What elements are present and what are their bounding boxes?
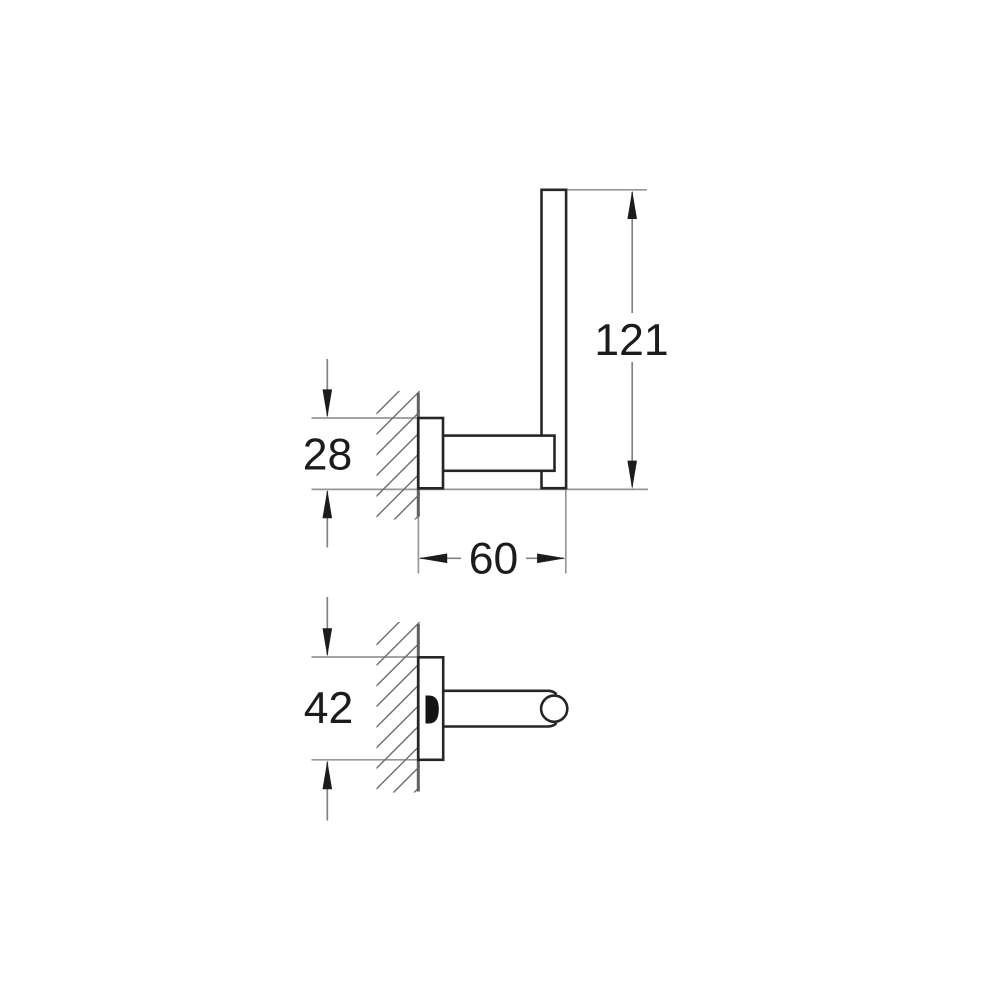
dimension 121: arrow up	[627, 191, 637, 219]
wall line (bottom figure)	[417, 624, 420, 792]
extension line top of plate (28)	[312, 417, 444, 419]
wall hatching (top view wall)	[355, 350, 440, 600]
vertical bar of holder (front view)	[542, 190, 567, 488]
rod (side view) bottom line	[443, 723, 556, 727]
extension line right (60)	[565, 490, 567, 574]
wall line (top figure)	[417, 393, 420, 517]
svg-text:60: 60	[469, 535, 519, 584]
rod end circle	[541, 696, 567, 722]
extension line top (for 121)	[566, 189, 647, 191]
extension line bottom shared (28 + 121)	[312, 488, 649, 490]
screw detail on plate	[426, 696, 439, 724]
dimension 28: bottom arrow line	[326, 491, 328, 548]
wall hatching (bottom view wall)	[355, 581, 440, 851]
horizontal arm (front view)	[443, 436, 555, 471]
dimension 42: bottom arrow line	[326, 762, 328, 821]
rod (side view) top line	[443, 691, 556, 695]
wall plate (side view)	[418, 657, 443, 760]
svg-text:42: 42	[304, 684, 354, 733]
dimension 60: line + arrows	[420, 557, 461, 559]
wall plate (front view)	[418, 418, 443, 488]
dimension 121: arrow down	[627, 461, 637, 489]
dimension 121: line	[631, 192, 633, 313]
extension line bottom of plate (42)	[312, 759, 444, 761]
extension line left (60)	[417, 490, 419, 574]
dimension 28: top arrow line	[326, 359, 328, 416]
extension line top of plate (42)	[312, 656, 444, 658]
svg-text:28: 28	[303, 431, 353, 480]
dimension 42: top arrow line	[326, 597, 328, 655]
svg-text:121: 121	[594, 316, 668, 365]
